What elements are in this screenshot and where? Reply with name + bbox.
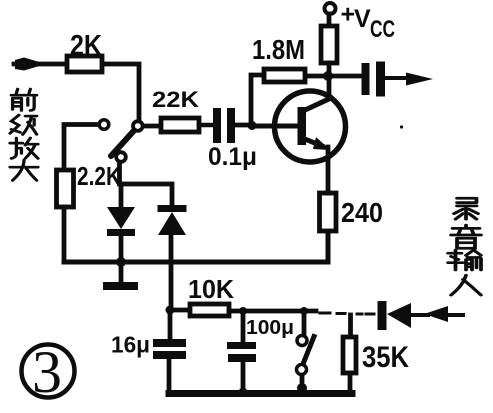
svg-text:100μ: 100μ — [246, 317, 294, 339]
svg-text:CC: CC — [370, 16, 395, 43]
svg-text:10K: 10K — [188, 274, 234, 304]
svg-text:0.1μ: 0.1μ — [208, 143, 257, 171]
svg-text:3: 3 — [32, 339, 62, 405]
svg-text:+: + — [341, 1, 356, 29]
svg-text:2.2K: 2.2K — [77, 161, 121, 191]
svg-text:22K: 22K — [152, 87, 199, 112]
svg-text:2K: 2K — [70, 30, 102, 62]
svg-text:V: V — [354, 5, 371, 33]
svg-text:35K: 35K — [362, 341, 409, 374]
svg-text:16μ: 16μ — [111, 332, 150, 358]
svg-text:240: 240 — [341, 197, 383, 228]
svg-text:1.8M: 1.8M — [252, 34, 305, 65]
